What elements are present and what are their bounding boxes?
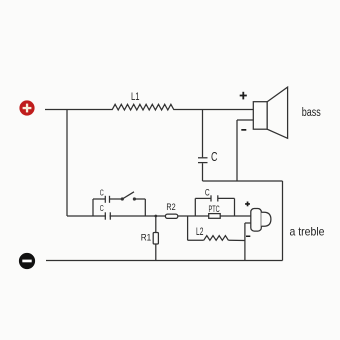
wire parallel branch risers [92, 199, 94, 216]
wire bottom from - terminal [46, 260, 283, 262]
svg-text:L1: L1 [131, 91, 140, 103]
node junction R1/R2 [154, 215, 157, 218]
wire horizontal mid return [203, 180, 283, 182]
resistor R1 [155, 216, 157, 261]
svg-text:C: C [100, 188, 104, 197]
svg-text:L2: L2 [196, 226, 203, 238]
svg-text:R2: R2 [166, 202, 175, 212]
svg-text:R1: R1 [141, 232, 152, 242]
resistor R2 [165, 214, 177, 218]
svg-text:C: C [100, 204, 104, 213]
svg-text:bass: bass [302, 107, 321, 119]
capacitor C treble branch [194, 198, 196, 216]
tweeter a treble [251, 209, 261, 232]
capacitor C upper branch [93, 198, 105, 200]
wire top from + terminal [45, 109, 112, 111]
inductor L2 branch [187, 216, 189, 240]
wire bass minus [237, 119, 253, 121]
terminal - (black) [19, 253, 35, 269]
inductor L1 [112, 104, 174, 110]
speaker bass [253, 102, 267, 130]
svg-text:C: C [211, 149, 218, 164]
capacitor C (bass low-pass) [198, 157, 208, 159]
wire right return vertical [282, 181, 284, 261]
switch S1 [110, 198, 123, 200]
node junction top-left [66, 110, 68, 217]
wire lower main line [67, 215, 251, 217]
wire cap bottom [202, 163, 204, 181]
node junction at capacitor C [202, 110, 204, 158]
wire top to bass speaker [174, 109, 253, 111]
capacitor C lower branch [106, 212, 110, 220]
svg-text:PTC: PTC [209, 204, 221, 214]
terminal + (red) [19, 100, 34, 115]
svg-text:a treble: a treble [290, 224, 325, 238]
PTC [209, 214, 221, 219]
svg-text:C: C [205, 188, 210, 199]
